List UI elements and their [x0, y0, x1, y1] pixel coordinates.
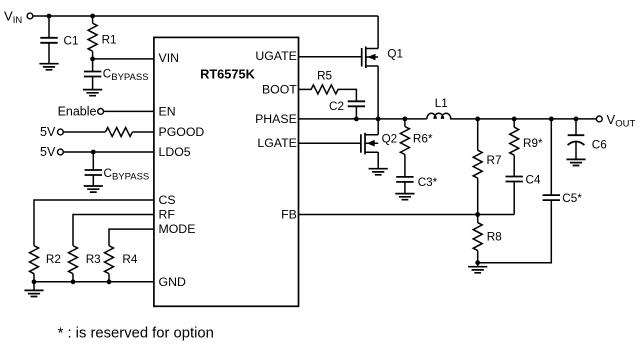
junction CBYPASS / VIN pin — [90, 57, 95, 62]
junction CBYPASS / LDO5 — [91, 150, 96, 155]
svg-text:PHASE: PHASE — [255, 112, 297, 126]
wire BOOT — [298, 88, 311, 90]
svg-text:FB: FB — [281, 208, 297, 222]
svg-text:R6*: R6* — [413, 132, 433, 145]
capacitor CBYPASS (LDO5) — [85, 152, 150, 186]
svg-text:IN: IN — [13, 15, 23, 26]
wire Q2 source — [377, 152, 379, 168]
node 5V (LDO5) — [40, 145, 63, 159]
node VOUT terminal — [596, 112, 635, 130]
junction C2 / PHASE — [354, 117, 359, 122]
resistor R9* — [510, 119, 543, 176]
wire LGATE — [298, 142, 360, 144]
wire L1 to VOUT — [450, 118, 596, 120]
svg-text:CS: CS — [159, 193, 176, 207]
resistor R8 — [473, 215, 502, 263]
svg-text:V: V — [607, 112, 616, 127]
ground CBYPASS (VIN) — [83, 90, 102, 96]
svg-text:UGATE: UGATE — [255, 49, 296, 63]
junction R8 / C5* ground node — [475, 260, 480, 265]
svg-text:R5: R5 — [317, 69, 332, 82]
svg-text:5V: 5V — [40, 125, 56, 139]
ground Q2 source — [369, 169, 388, 175]
junction C6 / VOUT — [574, 117, 579, 122]
capacitor C3* — [396, 176, 437, 193]
svg-text:C2: C2 — [329, 100, 344, 113]
wire VIN rail — [33, 15, 378, 17]
svg-text:PGOOD: PGOOD — [159, 125, 205, 139]
svg-text:C6: C6 — [592, 138, 607, 151]
capacitor CBYPASS (VIN) — [84, 59, 149, 90]
junction R2 / GND — [32, 279, 37, 284]
svg-text:BOOT: BOOT — [262, 82, 297, 96]
svg-text:EN: EN — [159, 105, 176, 119]
resistor R4 — [105, 246, 138, 282]
svg-text:C4: C4 — [526, 173, 541, 186]
svg-text:C3*: C3* — [418, 176, 438, 189]
wire FB — [298, 214, 514, 216]
svg-text:Q2: Q2 — [382, 133, 398, 146]
junction C5* / VOUT — [549, 117, 554, 122]
junction R7 / VOUT — [475, 117, 480, 122]
ground CBYPASS (LDO5) — [84, 186, 103, 192]
svg-text:R4: R4 — [122, 253, 137, 266]
junction R4 / GND — [107, 279, 112, 284]
svg-text:5V: 5V — [40, 145, 56, 159]
svg-text:R3: R3 — [86, 253, 101, 266]
resistor R1 — [88, 16, 116, 59]
resistor R3 — [69, 246, 101, 282]
junction R1 / VIN rail — [90, 14, 95, 19]
node 5V (PGOOD) — [40, 125, 63, 139]
svg-text:VIN: VIN — [159, 51, 180, 65]
svg-text:L1: L1 — [435, 97, 448, 110]
junction FB / R7 / R8 — [475, 212, 480, 217]
wire Q1 drain to VIN rail — [377, 16, 379, 49]
svg-text:LDO5: LDO5 — [159, 145, 191, 159]
svg-text:OUT: OUT — [615, 119, 635, 130]
svg-text:R1: R1 — [102, 34, 117, 47]
svg-text:GND: GND — [159, 275, 186, 289]
junction Q1 source / Q2 drain / PHASE — [376, 117, 381, 122]
wire GND pin — [34, 281, 154, 283]
wire 5V to PGOOD resistor — [63, 131, 105, 133]
wire CS — [34, 200, 154, 246]
resistor PGOOD pull-up — [105, 128, 132, 137]
resistor R2 — [30, 246, 61, 282]
svg-text:RF: RF — [159, 208, 176, 222]
ground GND pin — [24, 282, 43, 297]
wire Q2 drain to PHASE — [377, 119, 379, 135]
junction R9* / VOUT — [512, 117, 517, 122]
svg-text:RT6575K: RT6575K — [200, 66, 256, 81]
wire LDO5 — [63, 151, 154, 153]
svg-text:R2: R2 — [46, 253, 61, 266]
svg-text:Enable: Enable — [58, 105, 97, 119]
junction R6* / PHASE — [403, 117, 408, 122]
capacitor C1 — [40, 16, 78, 64]
junction R3 / GND — [71, 279, 76, 284]
wire UGATE — [298, 56, 361, 58]
capacitor C5* — [543, 119, 583, 205]
node VIN terminal — [4, 8, 33, 26]
capacitor C2 — [329, 100, 365, 113]
wire PGOOD pin — [132, 131, 154, 133]
ground C3* — [395, 194, 414, 200]
wire PHASE — [298, 118, 427, 120]
svg-text:Q1: Q1 — [387, 48, 403, 61]
capacitor C4 — [506, 173, 541, 214]
wire C5* to ground node — [478, 200, 552, 263]
svg-text:R9*: R9* — [523, 137, 543, 150]
IC U1 RT6575K — [154, 37, 299, 306]
ground C6 — [566, 159, 585, 165]
node Enable — [58, 105, 104, 119]
svg-text:* : is reserved for option: * : is reserved for option — [58, 326, 214, 342]
resistor R6* — [400, 119, 432, 177]
wire MODE — [109, 229, 154, 246]
ground R8 — [468, 263, 487, 273]
svg-text:C5*: C5* — [562, 192, 582, 205]
transistor Q1 — [362, 47, 403, 69]
wire RF — [73, 215, 154, 246]
wire EN — [104, 110, 155, 112]
junction C1 / VIN rail — [47, 14, 52, 19]
wire C2 to PHASE — [355, 106, 357, 119]
inductor L1 — [427, 97, 451, 119]
svg-text:R8: R8 — [487, 231, 502, 244]
capacitor C6 — [568, 119, 607, 159]
resistor R5 — [311, 69, 338, 94]
wire Q1 source to PHASE — [377, 66, 379, 119]
resistor R7 — [473, 119, 501, 215]
svg-text:LGATE: LGATE — [257, 136, 296, 150]
svg-text:R7: R7 — [487, 154, 502, 167]
wire R5 to C2 — [338, 89, 357, 101]
wire VIN pin — [93, 58, 154, 60]
svg-text:C1: C1 — [64, 35, 79, 48]
ground C1 — [39, 64, 58, 70]
transistor Q2 — [361, 133, 397, 155]
svg-text:MODE: MODE — [159, 222, 196, 236]
svg-text:V: V — [4, 8, 13, 23]
